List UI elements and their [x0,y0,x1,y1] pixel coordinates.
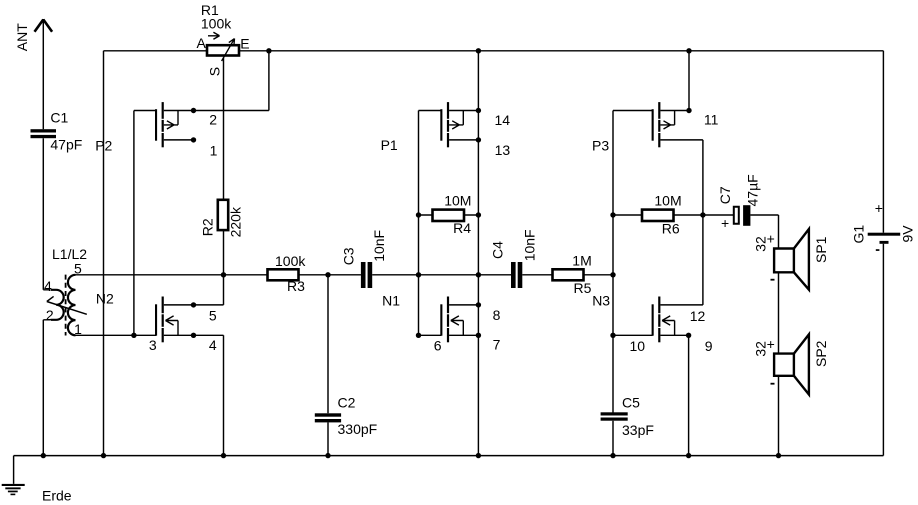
svg-text:330pF: 330pF [338,421,378,437]
svg-text:33pF: 33pF [622,422,654,438]
svg-text:SP1: SP1 [813,236,829,263]
svg-text:L1/L2: L1/L2 [52,246,87,262]
svg-text:N3: N3 [592,292,610,308]
svg-text:100k: 100k [201,15,232,31]
svg-text:12: 12 [690,308,706,324]
svg-text:220k: 220k [227,206,243,237]
svg-text:6: 6 [434,337,442,353]
svg-text:2: 2 [209,112,217,128]
svg-text:Erde: Erde [42,487,72,503]
svg-text:N1: N1 [382,292,400,308]
svg-text:1: 1 [210,142,218,158]
svg-text:G1: G1 [851,225,867,244]
svg-text:R6: R6 [662,220,680,236]
svg-text:11: 11 [704,112,719,128]
svg-text:100k: 100k [275,253,306,269]
svg-text:C1: C1 [50,109,68,125]
svg-text:C5: C5 [622,395,640,411]
svg-text:10: 10 [630,338,646,354]
svg-text:+: + [721,215,729,231]
svg-text:9: 9 [705,338,713,354]
svg-text:C2: C2 [338,394,356,410]
svg-text:10nF: 10nF [522,229,538,261]
svg-text:SP2: SP2 [813,340,829,367]
svg-text:1M: 1M [572,253,591,269]
svg-text:P3: P3 [592,137,609,153]
svg-text:10M: 10M [654,192,681,208]
svg-text:5: 5 [74,260,82,276]
svg-text:1: 1 [74,321,82,337]
svg-text:P1: P1 [381,137,398,153]
svg-text:47pF: 47pF [50,137,82,153]
svg-text:E: E [240,35,249,51]
svg-text:5: 5 [209,307,217,323]
svg-text:10nF: 10nF [371,230,387,262]
svg-text:P2: P2 [95,137,112,153]
svg-text:R5: R5 [574,280,592,296]
svg-text:13: 13 [495,142,511,158]
svg-text:S: S [207,67,223,76]
svg-text:4: 4 [44,278,52,294]
svg-text:+: + [767,230,775,246]
svg-text:N2: N2 [96,291,114,307]
svg-text:4: 4 [209,337,217,353]
svg-text:A: A [197,35,207,51]
svg-text:C3: C3 [341,247,357,265]
svg-text:2: 2 [46,307,54,323]
svg-text:+: + [875,200,883,216]
svg-text:47µF: 47µF [744,174,760,206]
svg-text:7: 7 [493,337,501,353]
svg-text:8: 8 [493,307,501,323]
svg-text:3: 3 [149,337,157,353]
svg-text:ANT: ANT [14,23,30,51]
svg-text:R3: R3 [287,278,305,294]
svg-text:10M: 10M [444,192,471,208]
svg-text:+: + [767,336,775,352]
svg-text:R2: R2 [200,218,216,236]
svg-text:9V: 9V [900,225,916,243]
svg-text:C4: C4 [489,241,505,259]
svg-text:14: 14 [495,112,511,128]
svg-text:C7: C7 [717,186,733,204]
svg-text:R4: R4 [453,220,471,236]
